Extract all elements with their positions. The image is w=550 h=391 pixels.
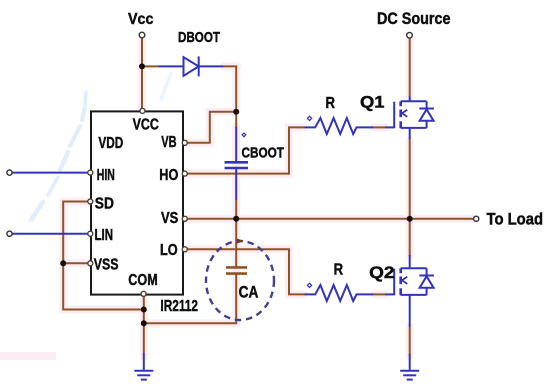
wire: VS line to To Load — [187, 218, 474, 220]
junction dot CBOOT/VS node — [233, 216, 239, 222]
svg-text:To Load: To Load — [487, 211, 544, 229]
wire: CBOOT junction down (brown parts) — [235, 112, 237, 219]
svg-text:CBOOT: CBOOT — [242, 145, 285, 162]
wire: VS junction down to Q2 drain (brown part) — [409, 219, 411, 256]
wire: LIN input (blue) — [12, 233, 90, 235]
svg-text:VS: VS — [161, 210, 179, 227]
CBOOT polarity marker — [242, 133, 246, 137]
wire: R2 to Q2 gate (blue) — [385, 293, 394, 295]
svg-text:IR2112: IR2112 — [160, 298, 198, 315]
svg-text:VDD: VDD — [98, 135, 123, 152]
svg-text:R: R — [334, 262, 344, 279]
wire: VS junction down to CA top — [235, 219, 237, 268]
ground (right, under Q2) — [400, 354, 419, 380]
pin SD — [88, 199, 93, 204]
capacitor CBOOT — [225, 127, 249, 200]
ground (left, under COM) — [134, 353, 153, 380]
wire: LO to gate resistor R2 — [187, 249, 305, 294]
capacitor CA — [226, 267, 247, 273]
wire: DC Source vertical (brown part) — [409, 38, 411, 97]
junction dot VSS bus — [60, 260, 66, 266]
resistor R1 marker — [307, 116, 311, 120]
svg-text:LO: LO — [160, 242, 178, 259]
pin VB — [182, 140, 187, 145]
junction dot COM/bus — [141, 307, 147, 313]
wire: HO to gate resistor R1 — [187, 127, 305, 173]
pin LO — [182, 247, 187, 252]
pin LIN — [88, 231, 93, 236]
wire: brown segment before Q2 gate — [374, 293, 385, 295]
svg-text:VB: VB — [161, 134, 176, 151]
transistor Q1 (N-MOSFET with body diode) — [394, 96, 434, 139]
svg-text:VCC: VCC — [133, 116, 160, 133]
svg-text:Vcc: Vcc — [128, 11, 154, 28]
svg-text:COM: COM — [128, 272, 157, 289]
pink halos under dark-red wires — [63, 40, 473, 357]
wire: R1 to Q1 gate (blue) — [385, 126, 394, 128]
svg-text:Q1: Q1 — [360, 94, 385, 112]
terminal HIN input — [7, 170, 12, 175]
pin VS — [182, 216, 187, 221]
terminal LIN input — [7, 231, 12, 236]
pin VSS — [88, 261, 93, 266]
diode DBOOT — [158, 56, 223, 76]
terminal DC Source — [407, 33, 413, 39]
wire: Q2 source to ground (brown part) — [409, 327, 411, 355]
pin COM — [141, 291, 146, 296]
junction dot VB/CBOOT node — [233, 109, 239, 115]
op-amp... IC body IR2112 — [91, 111, 183, 294]
wire: SD and VSS to left bus, bus down to COM line — [63, 202, 144, 310]
pin HO — [182, 171, 187, 176]
wire: CA bottom to COM node — [144, 274, 236, 324]
resistor R1 — [305, 118, 374, 134]
pink streak bottom-left — [0, 352, 56, 360]
svg-text:LIN: LIN — [95, 227, 114, 244]
svg-text:HIN: HIN — [97, 167, 115, 184]
junction dot COM/CA — [141, 320, 147, 326]
wire: Vcc vertical (terminal to VCC pin) — [141, 38, 143, 112]
svg-text:HO: HO — [159, 167, 178, 184]
svg-text:DBOOT: DBOOT — [178, 29, 220, 46]
pin HIN — [88, 170, 93, 175]
wire: brown segment before Q1 gate — [374, 126, 385, 128]
watermark light blue diagonal strokes — [31, 74, 171, 228]
wire: DBOOT cathode to VB-junction vertical — [142, 65, 237, 112]
junction dot at Vcc/DBOOT — [139, 63, 145, 69]
small arrow marker on circle top — [237, 239, 244, 244]
svg-text:VSS: VSS — [94, 256, 119, 273]
svg-text:R: R — [326, 95, 336, 112]
dashed highlight circle around CA — [206, 241, 274, 320]
wire: HIN input (blue) — [12, 172, 90, 174]
svg-text:DC Source: DC Source — [377, 10, 451, 28]
svg-text:SD: SD — [95, 196, 114, 213]
resistor R2 — [305, 285, 374, 301]
svg-text:Q2: Q2 — [369, 264, 394, 282]
transistor Q2 (N-MOSFET with body diode) — [394, 255, 434, 327]
resistor R2 marker — [307, 283, 311, 287]
terminal To Load — [474, 216, 479, 221]
junction dot VS/Q1-Q2 node — [407, 216, 413, 222]
wire: Q1 source down to VS junction — [409, 139, 411, 219]
wire: COM vertical down (brown part) — [143, 295, 145, 354]
svg-text:CA: CA — [239, 284, 259, 302]
wire: junction step down to VB pin — [187, 112, 238, 143]
terminal Vcc — [139, 32, 145, 38]
pin VCC — [140, 108, 145, 113]
